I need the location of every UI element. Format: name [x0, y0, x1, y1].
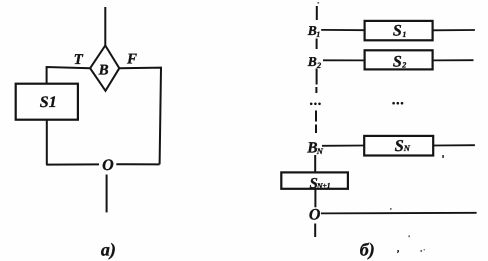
- wire: B2 row to box S2: [323, 59, 365, 61]
- wire: dashed trunk segment 3: [316, 69, 318, 85]
- svg-text:S: S: [393, 53, 402, 70]
- decision diamond B: [90, 46, 119, 91]
- wire: dashed trunk segment 2 (B1 to B2): [316, 39, 318, 50]
- speck above trunk: [318, 2, 320, 4]
- wire: trunk BN to SN+1 box: [314, 155, 316, 172]
- process box S1 (case row 1): [365, 21, 433, 40]
- svg-text:O: O: [309, 207, 321, 224]
- wire: dashed exit below O: [314, 224, 316, 238]
- svg-text:б): б): [360, 240, 375, 260]
- svg-text:F: F: [126, 52, 137, 68]
- speck above O wire: [390, 208, 392, 210]
- wire: dashed trunk segment 1 (above B1): [316, 6, 318, 20]
- speck below SN exit wire: [442, 155, 444, 158]
- wire: dashed trunk segment 6: [315, 125, 317, 134]
- wire: exit line below O: [106, 175, 108, 213]
- process box S2 (case row 2): [365, 50, 433, 69]
- svg-text:B: B: [307, 54, 317, 69]
- svg-text:1: 1: [402, 30, 406, 39]
- svg-text:,: ,: [396, 243, 399, 253]
- svg-text:S: S: [395, 136, 404, 155]
- wire: B1 row to box S1: [321, 29, 364, 31]
- svg-text:N: N: [316, 146, 324, 156]
- wire: S2 row exit right: [433, 59, 474, 61]
- svg-text:T: T: [74, 52, 84, 68]
- wire: O row exit right: [321, 212, 477, 215]
- process box SN+1 (default branch): [281, 172, 348, 188]
- svg-text:S1: S1: [40, 94, 57, 111]
- wire: top entry line of diagram a: [104, 7, 106, 46]
- wire: bottom horizontal left of O: [46, 163, 99, 165]
- svg-text:а): а): [101, 240, 116, 260]
- speck below O wire: [408, 235, 410, 237]
- wire: S1 row exit right: [433, 29, 475, 31]
- wire: BN row to box SN: [322, 145, 364, 147]
- ellipsis mid row: [392, 102, 403, 105]
- ellipsis on trunk: [310, 103, 321, 106]
- svg-text:+1: +1: [323, 181, 331, 190]
- svg-text:2: 2: [401, 60, 406, 69]
- svg-text:O: O: [102, 157, 114, 174]
- wire: dashed trunk segment 4: [315, 87, 317, 93]
- wire: SN+1 box down to O: [314, 189, 316, 208]
- wire: diamond left vertex to left, then down to S1 box: [47, 67, 91, 84]
- wire: dashed trunk segment 5: [315, 111, 317, 122]
- svg-text:1: 1: [316, 30, 320, 39]
- svg-text:B: B: [98, 63, 109, 79]
- svg-text:S: S: [393, 22, 402, 39]
- wire: diamond right vertex to right, then down to join: [119, 68, 161, 165]
- svg-text:N: N: [403, 143, 411, 153]
- wire: bottom horizontal right of O: [116, 163, 159, 165]
- wire: SN row exit right: [433, 144, 475, 146]
- process box SN (case row N): [364, 136, 433, 156]
- speck dots near caption: [420, 250, 422, 252]
- process box S1: [16, 84, 78, 120]
- wire: S1 box bottom down to join line: [46, 120, 48, 165]
